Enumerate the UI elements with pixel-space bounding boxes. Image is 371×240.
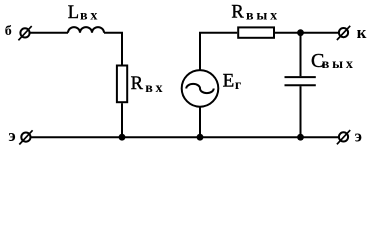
svg-text:э: э bbox=[8, 126, 15, 145]
svg-text:L: L bbox=[68, 3, 79, 23]
svg-text:б: б bbox=[5, 24, 12, 39]
wire: R_вых to terminal к bbox=[275, 32, 339, 34]
wire: б to inductor bbox=[30, 32, 68, 34]
svg-text:вх: вх bbox=[80, 9, 100, 24]
svg-text:вых: вых bbox=[322, 57, 356, 72]
svg-text:R: R bbox=[131, 74, 144, 94]
wire: E_г bottom to bottom rail bbox=[199, 107, 201, 138]
svg-text:э: э bbox=[355, 126, 362, 145]
wire: bottom rail bbox=[31, 136, 339, 138]
terminal э left bbox=[19, 130, 32, 144]
node: junction at capacitor top bbox=[297, 29, 304, 36]
resistor R_вх bbox=[117, 66, 127, 103]
inductor L_вх bbox=[68, 27, 104, 33]
terminal э right bbox=[337, 130, 350, 144]
svg-text:R: R bbox=[231, 3, 244, 23]
node: junction below R_вх bbox=[119, 134, 126, 141]
terminal б bbox=[18, 26, 31, 40]
resistor R_вых bbox=[238, 27, 274, 37]
svg-text:вых: вых bbox=[246, 8, 280, 23]
capacitor C_вых bbox=[285, 77, 316, 85]
svg-text:к: к bbox=[357, 23, 367, 42]
terminal к bbox=[337, 26, 350, 40]
node: junction below E_г bbox=[197, 134, 204, 141]
wire: capacitor to bottom rail bbox=[300, 86, 302, 137]
wire: E_г top to top rail corner then to R_вых bbox=[200, 33, 237, 70]
wire: inductor to R_вх corner bbox=[104, 33, 122, 65]
wire: R_вх to bottom rail bbox=[121, 103, 123, 137]
node: junction below capacitor bbox=[297, 134, 304, 141]
svg-text:г: г bbox=[235, 78, 241, 93]
wire: junction down to capacitor bbox=[300, 33, 302, 76]
svg-text:вх: вх bbox=[145, 81, 165, 96]
svg-text:Е: Е bbox=[223, 70, 235, 91]
AC source E_г bbox=[182, 70, 219, 107]
